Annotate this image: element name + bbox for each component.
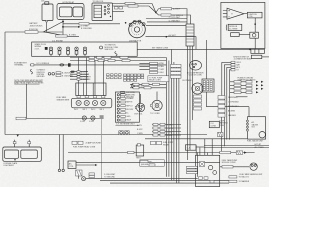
fuse row 1 [230,81,263,83]
wire bottom row 3 [110,182,229,184]
node [166,36,168,38]
ground connector 2 [89,116,95,123]
pigtail [115,52,117,57]
C2 row 2 [121,94,136,97]
relay boxes [151,141,175,146]
tcc solenoid [150,100,162,115]
wire label row 3 [70,76,92,79]
wire bottom row 2 [100,179,234,181]
breaker stack [218,96,240,118]
circled 1 note [100,45,119,51]
wire c100 top [206,40,208,79]
node [254,23,256,25]
ignition coil cap [92,3,113,21]
injector 1 [74,96,81,112]
shield drain wire [101,119,103,179]
coil box [247,12,262,18]
breaker feed wire [236,96,248,98]
wire est [146,18,187,20]
connector stub [17,135,19,137]
rear harness wires [59,135,63,170]
fuel injector assembly [71,98,112,108]
connector grid 2 [124,74,144,81]
wire ac feed [76,161,220,163]
wire pump feed [220,166,249,168]
wire bus B3 [192,46,194,120]
AC compressor solenoid [187,61,204,77]
wire bottom rail 2 [145,138,248,140]
mid bottom rows [187,166,198,173]
main vertical bus [165,58,167,177]
MAP sensor tap [68,63,71,66]
pickup coil comp [250,32,259,38]
wire bottom row 1 [86,178,198,180]
C100 connector block [202,79,214,92]
mid label column row1 [150,62,165,65]
wire to coil [244,13,247,15]
junction node [62,21,64,23]
fuse row 2 [230,84,263,86]
cap aux boxes [115,7,119,10]
wire label row 4 [70,78,91,81]
C2 row 3 [121,96,135,99]
wire [173,62,175,180]
wire ac short [76,164,95,166]
wire label row y84 [130,83,166,85]
wire C1 [63,26,78,28]
wire label [56,35,68,37]
wire label [161,14,171,16]
wire label [25,31,38,34]
spark tower 1 [49,47,52,56]
inline splice [76,170,83,179]
wire c100 bottom [207,92,250,117]
fuse row 4 [230,91,258,93]
wire labels row A [89,56,95,58]
wire distributor output [146,37,197,50]
spark plug wire box [32,40,138,56]
op-amp driver [227,8,244,19]
pigtail 2 [30,69,32,74]
rear connector rings [58,169,60,171]
fusible link [60,64,64,66]
ignition feed box [251,55,269,58]
wire main hot [5,31,63,33]
diag conn pair [119,131,129,135]
license lamp connector 1 [13,140,16,147]
wire horn drop [62,20,64,37]
sensor round 1 [131,84,145,88]
inline connector [31,64,34,66]
wire fuel pump feed [68,152,255,154]
distributor [125,20,146,42]
wire label [125,2,135,4]
module connector strip [251,49,265,53]
fuel pump note box [148,76,169,82]
wire battery diagonal [44,22,80,37]
wire [175,64,177,183]
ign row 1 [222,61,241,64]
mid wire rows [139,63,149,69]
tail light row 1 [229,176,250,179]
wire bypass [156,13,191,25]
right column label stack [194,95,202,110]
splice labels [89,173,116,179]
wire coil top B [113,6,156,13]
wire coil mid [113,11,125,13]
wire label [16,117,26,120]
wire comp drop [254,38,256,49]
mid label column row3 [150,68,165,71]
injector feed wires [79,58,104,96]
ign row 4 [229,69,239,72]
C3 box [209,121,219,127]
mid label column row2 [150,65,165,68]
junction node [62,26,64,28]
wire bus B1 [187,46,189,160]
ign row 2 [224,64,240,67]
wire ref [147,21,187,23]
wire x26 drop [27,84,100,119]
ignition module box U1 [221,2,265,48]
wire label row 2 [70,73,90,76]
fuel pump test conn box [136,144,144,160]
wire hot rail 2 [204,147,269,149]
wire [178,66,180,183]
injector 4 [100,96,106,112]
wire label row y878 [130,87,166,89]
spark tower 5 [83,47,86,56]
C2 row 1 [121,91,136,94]
spark tower 2 [58,47,61,56]
wire [170,49,172,180]
inline connector bottom trunk [218,132,224,136]
fuse pair [72,141,102,144]
tail light row 2 [229,180,250,183]
tach connector box [186,24,194,46]
ring terminal A [48,73,51,76]
wire battery drop [46,22,48,32]
wire coil drop [254,18,256,32]
solenoid stems [141,92,158,104]
AC control box [68,161,76,169]
wire label [222,166,233,168]
node [155,12,157,14]
wire label [79,23,89,25]
wire ref low [146,25,186,27]
fuel sender box [246,117,265,143]
tank feed verticals [196,139,212,156]
spark tower 3 [66,47,69,56]
injector 3 [91,96,98,112]
module label box [228,24,242,30]
wire tach [156,9,187,24]
ignition drop wires [222,62,230,146]
wire filter link [239,34,250,36]
wire row A [70,57,166,59]
tank module box [196,155,220,186]
wire label 14blk [220,151,231,153]
wire hot rail 1 [204,145,269,147]
c4 box [186,145,205,150]
wire set timing [137,48,250,50]
ign row 3 [227,66,241,69]
wire breaker drop [221,117,223,153]
battery B1 [30,2,54,28]
ground connector 1 [80,116,86,123]
ECM cell box [76,83,106,96]
shield tap [100,115,104,119]
mid label column row4 [150,71,165,74]
wire stub [198,139,205,177]
ring terminal B [52,73,55,76]
injector 2 [83,96,90,112]
wire row B [70,60,166,62]
node set timing [249,49,251,51]
inline connector [236,151,246,154]
wire label [161,8,172,10]
wire label 20ga [128,151,135,153]
terminal labels [56,72,61,74]
egr solenoid [135,103,145,115]
wire label row 1 [70,70,88,73]
wire [168,61,170,177]
op-amp inputs [223,11,227,17]
bracket [225,25,228,31]
wire coil top A [113,4,156,13]
wire TAN feed [63,23,120,25]
wire bottom trunk [5,134,207,136]
connector note block [140,160,165,166]
bus label stack [171,64,182,78]
ground ring [82,177,86,181]
wire left trunk [4,32,6,135]
license lamp connector 2 [28,140,31,147]
horn relay assembly [57,1,84,20]
bottom left labels [140,160,155,166]
tach filter box [231,33,240,37]
oil pressure sender [182,80,203,94]
spark tower 4 [75,47,78,56]
wire bus B2 [189,46,191,150]
connector grid 1 [107,74,122,79]
fuel pump motor [240,163,264,176]
wire ecm battery [30,64,167,66]
fuse row 3 [230,88,263,90]
ECM pin column [115,92,139,126]
mid connector rows [152,123,181,126]
license lamp assembly [3,147,42,167]
wire labels row B [89,59,95,61]
wire label [128,5,138,7]
